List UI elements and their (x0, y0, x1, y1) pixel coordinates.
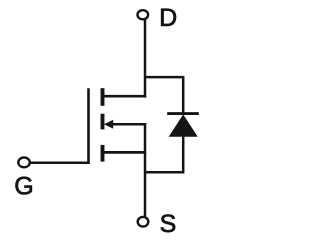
wire drain vertical (144, 20, 147, 98)
label D (161, 9, 176, 26)
wire diode top branch (145, 77, 183, 113)
diode D1 anode triangle (170, 115, 197, 136)
wire gate (30, 161, 89, 164)
wire source vertical (144, 123, 147, 217)
wire source stub (103, 151, 146, 154)
terminal D (138, 10, 149, 19)
label G (15, 177, 31, 195)
label S (161, 214, 175, 232)
transistor Q1 drain channel bar (101, 88, 105, 106)
diode D1 cathode bar (167, 112, 199, 115)
transistor Q1 source channel bar (101, 145, 105, 162)
wire body connection (113, 123, 146, 126)
transistor Q1 body channel bar (101, 114, 105, 130)
terminal G (18, 158, 30, 168)
transistor Q1 gate bar (87, 88, 90, 164)
body arrow (104, 120, 113, 129)
wire diode bottom (145, 136, 183, 173)
terminal S (138, 217, 149, 227)
wire drain stub (103, 95, 146, 98)
